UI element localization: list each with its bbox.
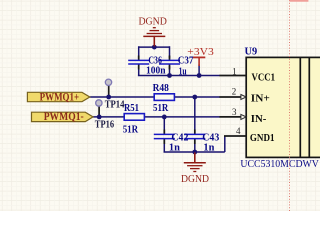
svg-text:IN-: IN- <box>251 114 267 125</box>
svg-text:DGND: DGND <box>181 174 209 185</box>
svg-text:TP14: TP14 <box>105 99 125 110</box>
svg-text:1: 1 <box>232 66 237 76</box>
svg-text:PWMQ1-: PWMQ1- <box>44 111 84 123</box>
svg-text:C37: C37 <box>178 55 194 66</box>
svg-text:U9: U9 <box>245 46 258 57</box>
svg-text:51R: 51R <box>153 103 169 114</box>
svg-text:IN+: IN+ <box>251 94 270 105</box>
svg-text:1n: 1n <box>169 143 180 154</box>
svg-text:100n: 100n <box>146 65 166 76</box>
svg-text:3: 3 <box>232 107 237 117</box>
svg-text:UCC5310MCDWV: UCC5310MCDWV <box>240 159 319 170</box>
svg-text:1u: 1u <box>179 66 187 77</box>
svg-text:2: 2 <box>232 87 237 97</box>
svg-text:R51: R51 <box>124 103 139 114</box>
svg-text:PWMQ1+: PWMQ1+ <box>40 91 80 103</box>
svg-text:4: 4 <box>236 126 241 136</box>
svg-text:GND1: GND1 <box>250 133 275 144</box>
svg-text:51R: 51R <box>123 124 139 135</box>
svg-text:DGND: DGND <box>138 15 167 27</box>
svg-text:VCC1: VCC1 <box>252 72 276 83</box>
svg-text:R48: R48 <box>153 83 169 94</box>
svg-text:1n: 1n <box>203 143 214 154</box>
svg-text:TP16: TP16 <box>95 120 114 131</box>
